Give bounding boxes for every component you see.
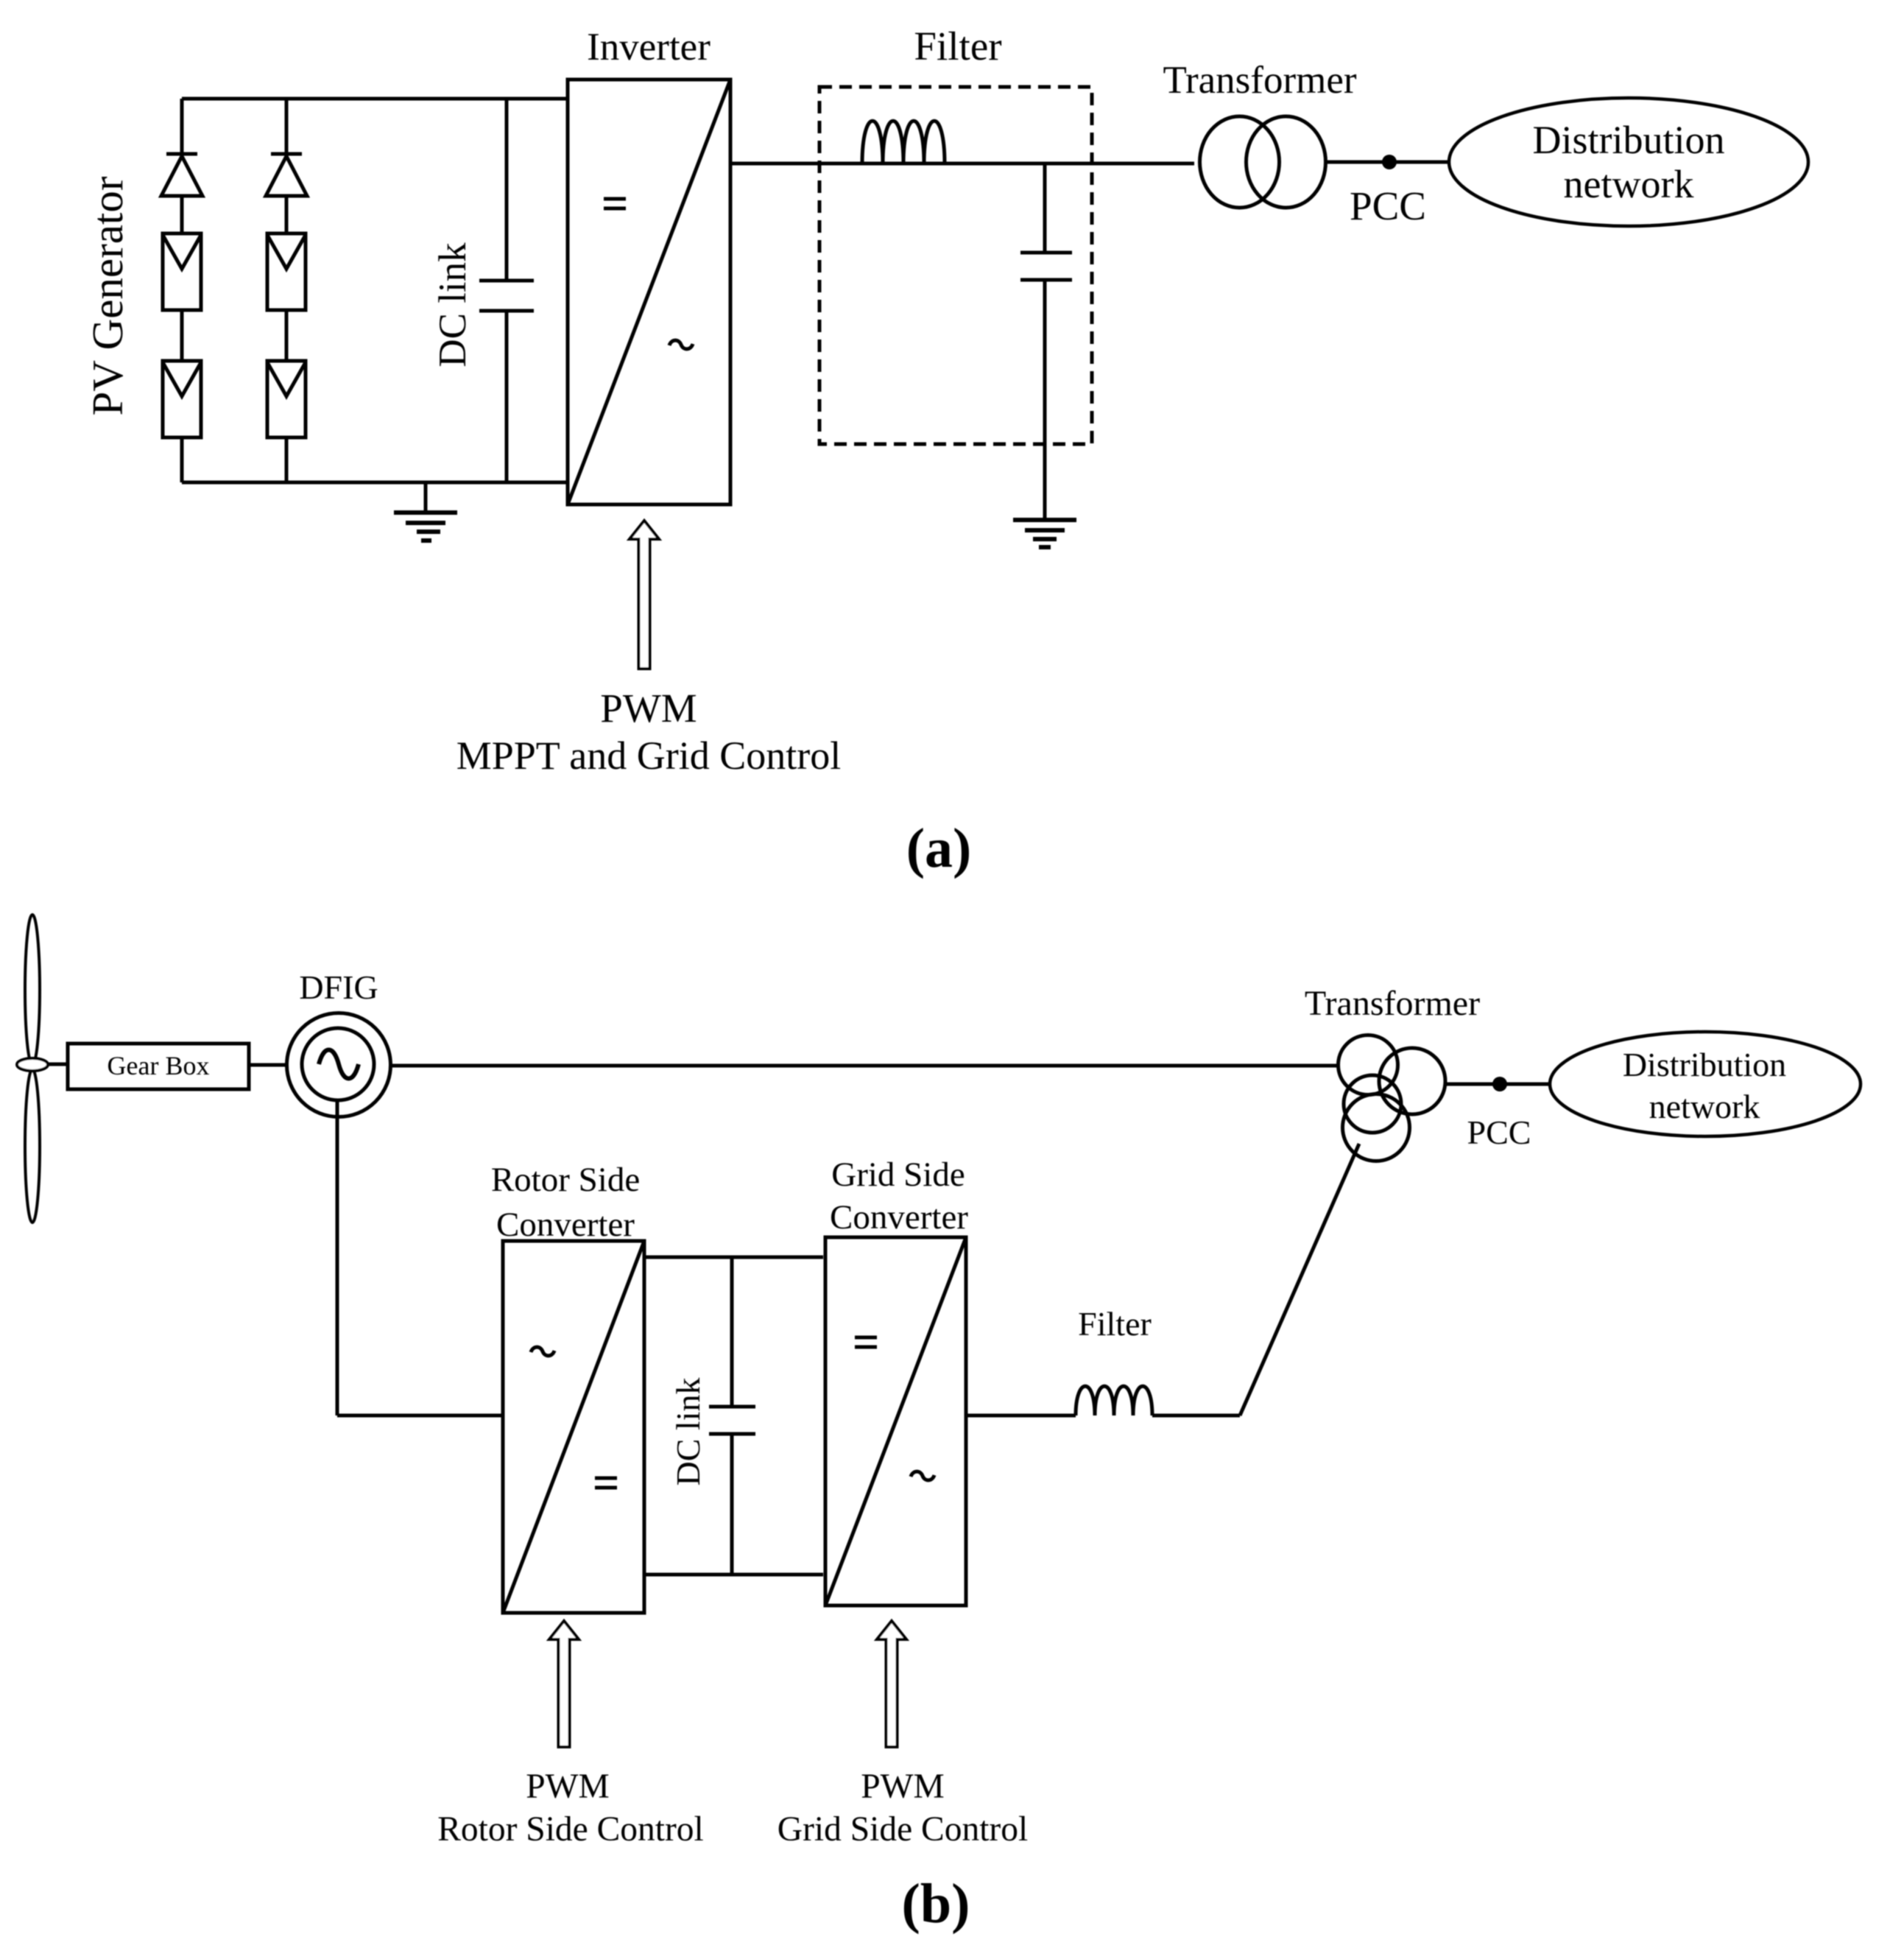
svg-text:PCC: PCC [1467,1114,1531,1151]
svg-text:PCC: PCC [1350,183,1426,228]
svg-text:PV Generator: PV Generator [83,176,132,415]
svg-text:Filter: Filter [914,24,1001,68]
svg-text:Transformer: Transformer [1163,59,1356,102]
svg-text:PWM: PWM [600,686,697,731]
svg-text:Grid Side Control: Grid Side Control [778,1810,1028,1849]
svg-text:Filter: Filter [1078,1305,1152,1343]
svg-text:Distribution: Distribution [1532,118,1724,162]
svg-text:Converter: Converter [830,1198,968,1237]
svg-text:Distribution: Distribution [1623,1046,1786,1083]
svg-text:network: network [1564,162,1694,206]
svg-text:PWM: PWM [526,1768,610,1806]
svg-text:MPPT and Grid Control: MPPT and Grid Control [456,734,842,778]
svg-text:Rotor Side Control: Rotor Side Control [437,1810,704,1849]
svg-text:DC link: DC link [669,1378,707,1486]
svg-text:Rotor Side: Rotor Side [491,1161,640,1199]
svg-text:Converter: Converter [496,1206,635,1244]
svg-text:Grid Side: Grid Side [831,1156,965,1194]
svg-text:network: network [1649,1088,1760,1125]
svg-text:(b): (b) [902,1873,970,1935]
svg-text:Transformer: Transformer [1305,984,1480,1023]
svg-text:Gear Box: Gear Box [107,1051,210,1080]
svg-text:(a): (a) [906,817,972,879]
svg-text:DFIG: DFIG [299,968,378,1006]
svg-text:Inverter: Inverter [587,26,711,68]
svg-text:DC link: DC link [431,242,474,367]
svg-text:PWM: PWM [861,1768,945,1806]
